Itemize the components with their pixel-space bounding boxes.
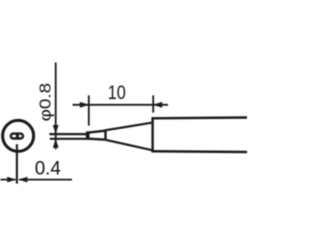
10 right arrowhead	[153, 102, 162, 108]
10 left extension line	[88, 95, 90, 125]
cylinder junction line	[151, 117, 153, 152]
cone bottom outline	[106, 140, 153, 150]
0.4 right arrowhead	[18, 177, 27, 183]
chisel flat bottom edge	[88, 139, 106, 140]
10 left arrowhead	[80, 102, 89, 108]
tip top extension line (=)	[49, 133, 86, 135]
cone top outline	[105, 123, 153, 131]
cylinder bottom line	[152, 150, 247, 153]
grind boundary (ellipse edge)	[104, 131, 106, 141]
cylinder top line	[152, 116, 247, 119]
chisel slot (stadium) in end view	[11, 134, 23, 139]
phi0.8 up arrowhead	[53, 139, 59, 148]
0.4 dimension line left tail	[1, 179, 16, 181]
svg-text:0.4: 0.4	[35, 158, 61, 180]
tip bottom extension line (=)	[50, 138, 87, 140]
extension line below circle for 0.4	[16, 144, 18, 183]
chisel flat top edge	[88, 131, 105, 133]
0.4 dimension line right tail	[19, 179, 72, 181]
tip end face (chisel edge, side view)	[86, 131, 90, 139]
0.4 left arrowhead	[7, 177, 16, 183]
10 dimension line	[73, 104, 169, 106]
phi0.8 dimension vertical line	[55, 63, 57, 150]
10 right extension line	[152, 95, 154, 112]
phi0.8 down arrowhead	[53, 125, 59, 134]
svg-text:φ0.8: φ0.8	[37, 83, 54, 122]
chisel edge divider (0.4 thick)	[16, 133, 19, 139]
end-view circle of tip	[3, 120, 34, 151]
svg-text:10: 10	[108, 82, 126, 104]
